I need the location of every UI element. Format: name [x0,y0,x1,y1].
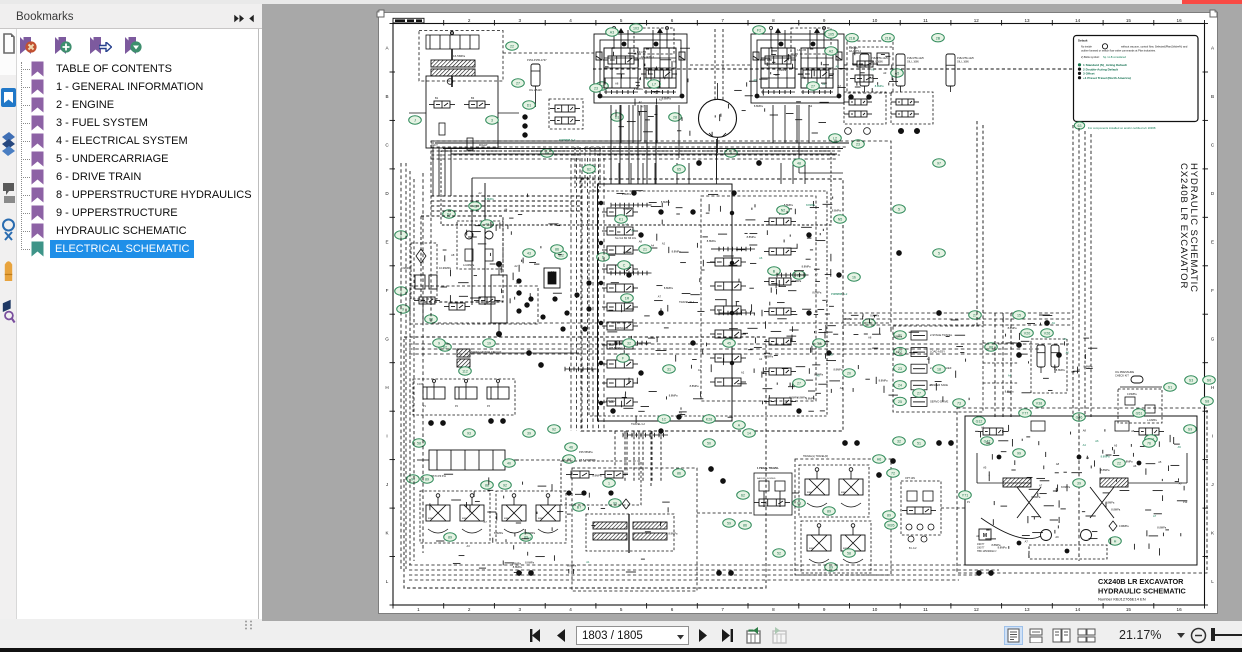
svg-text:K: K [385,530,389,535]
svg-text:8.8MPa: 8.8MPa [622,192,631,196]
svg-text:A6: A6 [1066,351,1070,355]
svg-text:27: 27 [516,82,520,86]
svg-text:52: 52 [777,552,781,556]
svg-text:A2: A2 [829,50,833,54]
svg-text:A2: A2 [759,357,763,361]
svg-text:A7: A7 [1025,539,1029,543]
svg-text:5: 5 [938,252,940,256]
svg-text:105: 105 [828,33,834,37]
svg-text:18: 18 [937,368,941,372]
svg-text:27: 27 [973,314,977,318]
svg-text:59: 59 [727,522,731,526]
svg-text:11: 11 [923,18,928,23]
svg-text:E: E [385,240,388,245]
svg-text:0.45MPa: 0.45MPa [1127,393,1137,396]
svg-text:A4: A4 [822,82,826,86]
svg-text:8.8MPa: 8.8MPa [812,291,821,295]
svg-text:A1: A1 [551,270,555,274]
svg-text:A7: A7 [484,520,488,524]
svg-text:14: 14 [1075,18,1081,23]
svg-text:TRAVEL GJ: TRAVEL GJ [631,422,646,426]
svg-text:A9: A9 [1055,535,1059,539]
svg-text:outline forward or switch flow: outline forward or switch flow valve com… [1081,49,1156,53]
svg-text:1R: 1R [625,297,630,301]
svg-text:S9: S9 [1188,428,1192,432]
svg-text:8.8MPa: 8.8MPa [998,545,1007,549]
svg-text:A7: A7 [1039,484,1043,488]
svg-text:A5: A5 [1114,444,1118,448]
svg-text:L2: L2 [833,137,837,141]
svg-text:8.8MPa: 8.8MPa [792,279,801,283]
svg-text:2: 2 [468,18,471,23]
svg-text:P088888 S-2: P088888 S-2 [831,292,848,296]
svg-text:A5: A5 [654,91,658,95]
svg-text:B3: B3 [471,96,475,100]
svg-text:A3: A3 [467,544,471,548]
svg-text:A1: A1 [586,560,590,564]
svg-text:8888: 8888 [841,492,847,494]
svg-text:H: H [1114,540,1117,544]
svg-text:RIGHT: RIGHT [479,143,488,147]
svg-text:H: H [385,385,388,390]
svg-text:8888: 8888 [538,518,544,520]
svg-text:A.100MPa: A.100MPa [463,264,475,267]
svg-text:8.8MPa: 8.8MPa [870,314,879,318]
svg-text:9: 9 [402,308,404,312]
svg-text:A2: A2 [741,370,745,374]
svg-text:A6: A6 [1133,464,1137,468]
svg-text:15: 15 [1017,314,1021,318]
svg-text:S8: S8 [1205,400,1209,404]
svg-text:E: E [1211,240,1214,245]
svg-text:92: 92 [503,484,507,488]
svg-text:32: 32 [627,342,631,346]
svg-text:K: K [1211,530,1215,535]
svg-text:A2: A2 [478,191,482,195]
svg-text:J: J [1211,482,1213,487]
svg-text:I-41.N5: I-41.N5 [637,50,647,54]
svg-text:D1: D1 [527,104,532,108]
svg-text:8.8MPa: 8.8MPa [875,84,884,88]
svg-text:1: 1 [417,607,420,612]
svg-text:7: 7 [721,607,724,612]
svg-text:HYDRAULIC SCHEMATIC: HYDRAULIC SCHEMATIC [1098,587,1187,596]
svg-text:1C: 1C [662,418,667,422]
svg-text:2B: 2B [936,36,941,40]
svg-text:A3: A3 [698,368,702,372]
svg-text:63: 63 [1078,124,1082,128]
svg-text:J: J [414,119,416,123]
svg-text:8.8MPa: 8.8MPa [672,249,681,253]
svg-text:CHECK KIT: CHECK KIT [1115,374,1129,378]
svg-text:B: B [385,94,388,99]
svg-text:B L 1/2: B L 1/2 [909,547,917,550]
svg-text:A5: A5 [816,373,820,377]
svg-text:I: I [1212,433,1213,438]
svg-text:46: 46 [569,446,573,450]
svg-text:Y77: Y77 [1022,412,1028,416]
svg-text:14: 14 [1075,607,1081,612]
svg-text:A5: A5 [895,72,899,76]
svg-text:39: 39 [527,432,531,436]
svg-text:89: 89 [448,536,452,540]
svg-text:8.8MPa: 8.8MPa [1061,485,1070,489]
svg-text:SERVO DRIVE: SERVO DRIVE [930,399,949,403]
svg-text:OIL L 1686: OIL L 1686 [907,61,919,64]
svg-text:50: 50 [707,442,711,446]
svg-text:8.8MPa: 8.8MPa [802,264,811,268]
svg-text:1: 1 [608,482,610,486]
svg-text:D: D [1211,191,1215,196]
svg-text:A5: A5 [830,353,834,357]
svg-text:8.8MPa: 8.8MPa [662,97,671,101]
svg-text:8.8MPa: 8.8MPa [494,299,503,303]
svg-text:A2: A2 [659,98,663,102]
svg-text:G: G [385,337,389,342]
svg-text:A9: A9 [1052,321,1056,325]
svg-text:8.8MPa: 8.8MPa [1005,389,1014,393]
svg-text:8.8MPa: 8.8MPa [879,379,888,383]
svg-text:39: 39 [1077,482,1081,486]
svg-text:L: L [1211,579,1214,584]
svg-text:A9: A9 [753,78,757,82]
svg-text:9A-14T5.2: 9A-14T5.2 [849,49,862,53]
svg-text:45: 45 [727,342,731,346]
svg-text:16.5MPa: 16.5MPa [453,54,465,58]
svg-text:51: 51 [917,442,921,446]
svg-text:A7: A7 [646,77,650,81]
svg-text:8.8MPa: 8.8MPa [606,399,615,403]
svg-text:SLJ A1 B2 N6 10L: SLJ A1 B2 N6 10L [615,236,637,240]
svg-text:G: G [1211,337,1215,342]
svg-text:16: 16 [1177,607,1183,612]
svg-text:A2: A2 [662,242,666,246]
svg-text:M: M [983,533,987,539]
svg-text:Sp / A-B considered: Sp / A-B considered [1103,55,1126,59]
svg-text:112: 112 [558,254,564,258]
svg-text:A8: A8 [1056,462,1060,466]
svg-text:A7: A7 [658,294,662,298]
svg-text:J: J [386,482,388,487]
svg-text:8.8MPa: 8.8MPa [525,561,534,565]
svg-text:A7: A7 [641,105,645,109]
svg-text:A: A [385,46,389,51]
svg-text:8.8MPa: 8.8MPa [783,403,792,407]
svg-text:8.8MPa: 8.8MPa [661,200,670,204]
svg-text:B: B [1211,94,1214,99]
svg-text:7: 7 [721,18,724,23]
svg-text:15: 15 [1126,607,1132,612]
svg-text:8.8MPa: 8.8MPa [664,286,673,290]
svg-text:P2: P2 [455,405,459,408]
svg-text:Number KBJ12766E14 EN: Number KBJ12766E14 EN [1098,597,1146,602]
svg-text:76: 76 [1147,442,1151,446]
svg-text:112: 112 [462,370,468,374]
svg-text:8888: 8888 [428,518,434,520]
svg-text:103: 103 [633,27,639,31]
svg-text:M26: M26 [888,524,895,528]
svg-text:5: 5 [620,607,623,612]
svg-text:5: 5 [898,208,900,212]
svg-text:A3: A3 [611,46,615,50]
svg-text:28: 28 [673,116,677,120]
svg-text:K28: K28 [706,418,712,422]
svg-text:8888: 8888 [462,518,468,520]
svg-text:A8: A8 [868,335,872,339]
svg-text:G51: G51 [1136,412,1143,416]
svg-text:8.8MPa: 8.8MPa [806,203,815,207]
svg-text:A1: A1 [927,357,931,361]
svg-text:23: 23 [856,143,860,147]
svg-text:1 PEDAL TRAVEL: 1 PEDAL TRAVEL [757,466,779,470]
svg-text:8.8MPa: 8.8MPa [623,207,632,211]
svg-text:A1: A1 [981,426,985,430]
svg-text:8.8MPa: 8.8MPa [832,209,841,213]
svg-text:8.8MPa: 8.8MPa [1105,500,1114,504]
svg-text:65: 65 [677,168,681,172]
svg-text:A3: A3 [610,31,614,35]
svg-text:A8: A8 [1083,429,1087,433]
svg-text:1b: 1b [852,276,856,280]
svg-text:Default: Default [1078,39,1088,43]
svg-text:8: 8 [772,18,775,23]
svg-text:A2: A2 [514,264,518,268]
svg-text:23: 23 [898,367,902,371]
svg-text:A6: A6 [1131,429,1135,433]
svg-text:A3: A3 [883,71,887,75]
svg-text:D: D [385,191,389,196]
svg-text:A8: A8 [615,81,619,85]
svg-text:2) Bolts symbol:: 2) Bolts symbol: [1081,55,1100,59]
svg-text:A4: A4 [528,536,532,540]
svg-text:20: 20 [847,372,851,376]
svg-text:3: 3 [519,18,522,23]
svg-text:22: 22 [510,45,514,49]
svg-text:V26: V26 [1044,332,1050,336]
svg-text:TRAVEL(L) TRAVEL(R): TRAVEL(L) TRAVEL(R) [803,455,828,458]
svg-text:No inside: No inside [1081,44,1092,48]
svg-text:H: H [1211,385,1214,390]
svg-text:8.8MPa: 8.8MPa [788,54,797,58]
svg-text:8.8MPa: 8.8MPa [494,531,503,535]
svg-text:HYDRAULIC SCHEMATIC: HYDRAULIC SCHEMATIC [1188,163,1199,293]
svg-text:8.8MPa: 8.8MPa [761,56,770,60]
svg-text:F2: F2 [757,29,761,33]
svg-text:5: 5 [620,18,623,23]
svg-text:S1: S1 [1168,386,1172,390]
svg-text:12: 12 [974,607,980,612]
svg-text:8.8MPa: 8.8MPa [526,531,535,535]
svg-text:TBD 145/3000cm³: TBD 145/3000cm³ [977,550,997,553]
svg-text:21B: 21B [885,36,892,40]
svg-text:C: C [385,143,389,148]
svg-text:8.8MPa: 8.8MPa [747,235,756,239]
svg-text:8.8MPa: 8.8MPa [485,197,494,201]
svg-text:A8: A8 [639,239,643,243]
svg-text:TRAVEL SLJ: TRAVEL SLJ [679,300,695,304]
svg-text:9A-14T5.2: 9A-14T5.2 [641,55,655,59]
svg-text:A6: A6 [870,76,874,80]
svg-text:OIL L 1686: OIL L 1686 [871,61,883,64]
svg-text:97: 97 [937,162,941,166]
svg-text:A8: A8 [451,253,455,257]
svg-text:C: C [1211,143,1215,148]
svg-text:19: 19 [487,342,491,346]
svg-text:8.8MPa: 8.8MPa [512,561,521,565]
svg-text:11: 11 [923,607,928,612]
svg-text:86: 86 [677,472,681,476]
svg-text:H6: H6 [877,458,882,462]
svg-text:89: 89 [425,478,429,482]
svg-text:P1: P1 [967,501,971,504]
svg-text:21B: 21B [849,36,856,40]
svg-text:S3: S3 [1189,379,1193,383]
svg-text:8.8MPa: 8.8MPa [777,68,786,72]
svg-text:S6: S6 [1207,379,1211,383]
svg-text:6: 6 [671,18,674,23]
svg-text:46: 46 [473,205,477,209]
svg-text:+1 Preset Travel (North Americ: +1 Preset Travel (North America) [1083,76,1131,80]
svg-text:A7: A7 [838,84,842,88]
svg-text:8.8MPa: 8.8MPa [1056,368,1065,372]
svg-text:K1: K1 [619,218,623,222]
svg-text:A7: A7 [815,273,819,277]
svg-text:A5: A5 [983,465,987,469]
svg-text:8.8MPa: 8.8MPa [1008,326,1017,330]
svg-text:13: 13 [1024,18,1030,23]
svg-text:C: C [623,264,626,268]
svg-text:A2: A2 [809,104,813,108]
svg-text:62: 62 [741,494,745,498]
svg-text:Y71: Y71 [962,494,968,498]
svg-text:99: 99 [1017,452,1021,456]
svg-text:8.8MPa: 8.8MPa [842,317,851,321]
svg-text:B1: B1 [435,96,439,100]
svg-text:A6: A6 [673,60,677,64]
svg-text:P3: P3 [487,405,491,408]
svg-text:25: 25 [898,400,902,404]
svg-text:23: 23 [594,87,598,91]
svg-text:LEFT: LEFT [431,143,438,147]
svg-text:92: 92 [552,428,556,432]
svg-text:P152-P155-1737: P152-P155-1737 [527,58,547,62]
svg-text:A9: A9 [896,350,900,354]
svg-text:8888: 8888 [504,518,510,520]
svg-text:40: 40 [507,462,511,466]
svg-text:89: 89 [887,514,891,518]
svg-text:OIL PRESSURE: OIL PRESSURE [1115,370,1134,374]
svg-text:A4: A4 [1086,456,1090,460]
svg-text:8.8MPa: 8.8MPa [834,368,843,372]
svg-text:A4: A4 [1083,443,1087,447]
svg-text:22: 22 [1117,462,1121,466]
svg-text:4: 4 [569,18,572,23]
svg-text:OIL L 5426: OIL L 5426 [529,88,542,92]
svg-text:D1: D1 [615,116,620,120]
svg-text:A4: A4 [631,229,635,233]
svg-text:13: 13 [1024,607,1030,612]
svg-text:9: 9 [438,342,440,346]
svg-text:without vacuum, control flow.: without vacuum, control flow. Selected(P… [1121,44,1188,48]
svg-text:L: L [386,579,389,584]
svg-text:10-96MPa: 10-96MPa [439,266,452,270]
svg-text:58: 58 [417,442,421,446]
svg-text:A1: A1 [871,67,875,71]
svg-text:L-18MPa: L-18MPa [1147,419,1157,422]
svg-text:8.8MPa: 8.8MPa [1111,507,1120,511]
svg-text:8.8MPa: 8.8MPa [669,532,678,536]
svg-text:27: 27 [797,382,801,386]
svg-text:For components installed on an: For components installed on and/or certi… [1088,126,1156,130]
svg-text:8888: 8888 [809,548,815,550]
svg-text:8.8MPa: 8.8MPa [593,474,602,478]
svg-text:8.8MPa: 8.8MPa [754,104,763,108]
svg-text:N5: N5 [838,218,843,222]
svg-text:A8: A8 [976,534,980,538]
svg-text:A7: A7 [1153,514,1157,518]
svg-text:8.8MPa: 8.8MPa [690,384,699,388]
svg-text:89: 89 [829,566,833,570]
svg-text:OPT 10N: OPT 10N [905,477,915,480]
svg-text:10: 10 [872,18,878,23]
svg-text:8.8MPa: 8.8MPa [634,87,643,91]
svg-text:A8: A8 [815,310,819,314]
svg-text:6: 6 [671,607,674,612]
svg-text:P1: P1 [423,405,427,408]
svg-text:22: 22 [797,274,801,278]
svg-text:A4: A4 [929,383,933,387]
svg-text:A5: A5 [665,76,669,80]
svg-text:BACKWD FORWD: BACKWD FORWD [757,477,776,480]
svg-text:86: 86 [743,524,747,528]
svg-text:2: 2 [468,607,471,612]
svg-text:V38: V38 [1036,402,1042,406]
svg-text:15: 15 [1126,18,1132,23]
svg-text:72: 72 [891,472,895,476]
svg-text:27: 27 [811,85,815,89]
svg-text:14: 14 [747,432,751,436]
svg-text:B7: B7 [577,506,581,510]
svg-text:A2: A2 [639,100,643,104]
svg-text:9: 9 [823,18,826,23]
svg-text:48: 48 [797,162,801,166]
svg-text:8.8MPa: 8.8MPa [1157,526,1166,530]
svg-text:8.8MPa: 8.8MPa [1101,468,1110,472]
svg-text:21: 21 [643,248,647,252]
svg-text:8.8MPa: 8.8MPa [893,335,902,339]
svg-text:SWING RC: SWING RC [615,326,628,330]
svg-text:8.8MPa: 8.8MPa [764,354,773,358]
svg-text:10: 10 [872,607,878,612]
svg-text:93: 93 [467,432,471,436]
svg-text:27: 27 [917,392,921,396]
svg-text:8.8MPa: 8.8MPa [1031,495,1040,499]
svg-text:N2: N2 [781,209,786,213]
svg-text:A: A [1211,46,1215,51]
svg-text:P10: P10 [1183,501,1188,504]
svg-text:A6: A6 [1063,337,1067,341]
svg-text:A2: A2 [679,411,683,415]
svg-text:G12: G12 [976,420,983,424]
svg-text:A6: A6 [1095,439,1099,443]
svg-text:A7: A7 [516,281,520,285]
svg-text:58: 58 [847,552,851,556]
svg-text:A7: A7 [1179,482,1183,486]
svg-text:P45.55MPa: P45.55MPa [579,450,593,454]
svg-text:12: 12 [974,18,980,23]
svg-text:8888: 8888 [807,492,813,494]
svg-text:8.8MPa: 8.8MPa [789,395,798,399]
